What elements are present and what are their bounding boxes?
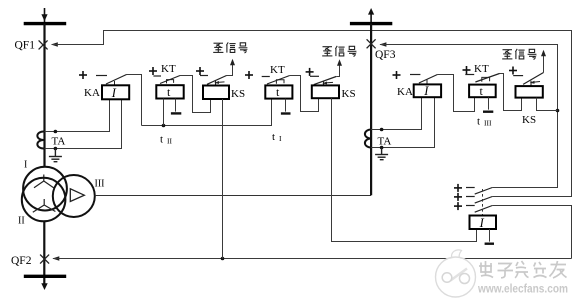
svg-text:KT: KT (270, 64, 285, 76)
relay coil KS1 (signal) (203, 86, 229, 100)
plus terminal (KA1 contact) (79, 71, 87, 79)
label KS (2) (342, 88, 356, 100)
svg-text:t: t (477, 115, 480, 127)
output relay coil (current element I) (470, 216, 497, 231)
svg-text:KT: KT (474, 63, 489, 75)
label to-signal 1 (213, 42, 247, 52)
contact KT2 (delayed) (262, 76, 290, 85)
plus terminal (KT2 contact) (245, 71, 253, 79)
trip bus to QF2 with arrowhead (52, 256, 571, 261)
label KS (1) (231, 88, 245, 100)
QF1 feeder line down to transformer (43, 24, 45, 167)
svg-text:KA: KA (397, 86, 413, 98)
node TA2 tap b (380, 146, 384, 150)
node TA1 tap b (54, 147, 58, 151)
svg-text:I: I (24, 160, 27, 171)
svg-text:KA: KA (84, 87, 100, 99)
svg-text:www.elecfans.com: www.elecfans.com (477, 282, 568, 296)
label KT (2) (270, 64, 285, 76)
wire KS1 contact to signal with arrowhead (227, 59, 236, 76)
junction KS1 to trip bus (221, 257, 225, 261)
svg-text:KS: KS (522, 114, 536, 126)
watermark text dianzifashaoyou (479, 261, 567, 278)
svg-text:II: II (167, 137, 172, 146)
label I (24, 160, 27, 171)
label t II (160, 133, 172, 145)
wire KS3 coil right to QF3 trip wire (537, 98, 558, 111)
incoming feeder arrow (top of QF1 line) (41, 8, 47, 23)
outgoing feeder arrow (bottom of QF2) (41, 283, 47, 290)
mechanical link (dashed) (482, 189, 484, 216)
node KS3 on QF3 trip wire (556, 109, 560, 113)
TA right secondary wire 1 (371, 97, 421, 129)
minus terminal KT2 (281, 99, 291, 114)
wire KA2 contact to KT3 coil (437, 75, 474, 112)
svg-text:II: II (18, 216, 25, 227)
outgoing feeder arrow (top of QF3 line) (368, 8, 374, 24)
svg-text:QF2: QF2 (11, 255, 32, 267)
contact KA2 (410, 75, 437, 84)
current transformer TA (left) (37, 131, 44, 148)
trip wire into QF1 with arrowhead (51, 31, 572, 197)
plus terminal (KS2 contact) (306, 68, 314, 76)
plus terminal (KS3 contact) (509, 67, 517, 75)
svg-text:t: t (272, 131, 275, 143)
minus terminal KT3 (483, 97, 493, 112)
plus terminal (KS1 contact) (196, 67, 204, 75)
ground (right TA) (375, 148, 388, 160)
plus terminal (output contact 2) (454, 193, 462, 201)
label II (18, 216, 25, 227)
relay coil KT2 (time element t) (265, 85, 292, 99)
contact KT1 (delayed) (153, 76, 180, 84)
plus terminal (output contact 3) (454, 202, 462, 210)
wire KS2 contact to signal with arrowhead (336, 59, 342, 76)
transformer winding II (circle, wye) (22, 178, 66, 222)
current transformer TA (right) (365, 130, 371, 148)
wire KT1 coil left to supply node (163, 99, 165, 126)
node TA2 tap a (380, 128, 384, 132)
transformer winding I (circle, wye) (23, 167, 67, 211)
ground (left TA) (49, 149, 62, 162)
plus terminal (KA2 contact) (393, 71, 401, 79)
wire KS1 coil to QF2 trip bus (222, 99, 224, 259)
node KT1 supply (162, 124, 166, 128)
breaker QF1 (X symbol) (39, 40, 48, 49)
wire KS3 contact to signal with arrowhead (541, 50, 546, 73)
contact KS3 (with operation arrow) (513, 73, 543, 87)
svg-text:TA: TA (378, 135, 392, 147)
watermark url (477, 282, 568, 296)
label QF2 (11, 255, 32, 267)
output contact 3 (trips QF2) (466, 206, 492, 213)
relay coil KA1 (current element I) (102, 85, 129, 100)
label KS (3) (522, 114, 536, 126)
busbar above QF1 (24, 22, 66, 25)
output contact 1 (trips QF3) (466, 188, 492, 195)
transformer winding III (circle, delta) (53, 175, 95, 217)
label TA (right) (378, 135, 392, 147)
label t I (272, 131, 282, 143)
label t III (477, 115, 492, 127)
contact KS1 (with operation arrow) (200, 76, 227, 86)
svg-text:QF1: QF1 (15, 40, 36, 52)
TA left secondary wire 2 (45, 99, 122, 148)
contact KA1 (96, 75, 127, 86)
relay coil KT1 (time element t) (156, 85, 183, 99)
busbar above QF3 (350, 22, 392, 25)
svg-text:III: III (95, 179, 105, 190)
TA right secondary wire 2 (371, 97, 434, 147)
relay coil KT3 (time element t) (469, 84, 496, 98)
label III (95, 179, 105, 190)
svg-text:KS: KS (342, 88, 356, 100)
svg-text:I: I (479, 216, 485, 230)
svg-text:I: I (423, 84, 429, 98)
wire KA1 contact to KT coils bus (127, 75, 142, 126)
label to-signal 3 (502, 49, 536, 59)
minus terminal KT1 (171, 99, 181, 114)
label KA (2) (397, 86, 413, 98)
label KT (3) (474, 63, 489, 75)
relay coil KS3 (signal) (516, 86, 543, 98)
wire KT3 contact to KS3 coil (500, 74, 522, 111)
TA left secondary wire 1 (45, 99, 110, 131)
wire output contact 3 to QF2 trip bus (492, 206, 571, 259)
breaker QF2 (X symbol) (40, 255, 49, 264)
label TA (left) (52, 136, 66, 148)
wire KS2 coil to output relay coil (332, 98, 477, 241)
minus terminal output relay (485, 229, 494, 244)
trip wire into QF3 with arrowhead (379, 42, 557, 187)
svg-text:TA: TA (52, 136, 66, 148)
plus terminal (output contact 1) (454, 184, 462, 192)
QF3 feeder line (370, 24, 372, 196)
wire winding III to QF3 feeder (95, 195, 371, 197)
svg-text:KT: KT (161, 63, 176, 75)
busbar below QF2 (24, 275, 66, 278)
label QF1 (15, 40, 36, 52)
node TA1 tap a (54, 130, 58, 134)
relay coil KA2 (current element I) (414, 84, 441, 98)
label to-signal 2 (322, 46, 356, 56)
wire KT2 contact to KS2 coil (290, 76, 319, 112)
output contact 2 (trips QF1) (466, 197, 492, 204)
svg-text:I: I (111, 86, 117, 100)
contact KS2 (with operation arrow) (310, 76, 336, 85)
label QF3 (375, 49, 396, 61)
label KA (84, 87, 100, 99)
label KT (1) (161, 63, 176, 75)
relay coil KS2 (signal) (312, 85, 339, 98)
contact KT3 (delayed) (465, 74, 499, 83)
svg-text:KS: KS (231, 88, 245, 100)
QF2 feeder line (43, 221, 45, 284)
wire KT1 contact to KS1 coil (180, 76, 211, 113)
svg-text:III: III (484, 119, 492, 128)
breaker QF3 (X symbol) (367, 39, 376, 48)
watermark logo circle (436, 250, 476, 297)
plus terminal (KT3 contact) (463, 66, 471, 74)
wire KT coil supply bus (142, 98, 272, 125)
svg-text:t: t (160, 133, 163, 145)
plus terminal (KT1 contact) (149, 67, 157, 75)
svg-text:QF3: QF3 (375, 49, 396, 61)
